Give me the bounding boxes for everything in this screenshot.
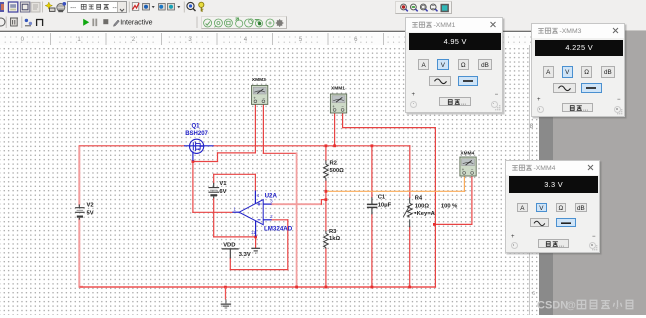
wire: V2 left rail vertical (light) (78, 147, 80, 205)
multimeter panel XMM4 (505, 160, 600, 253)
transistor Q1 BSH207 (184, 139, 214, 161)
wire: op-amp pin2 loop to VDD bar (272, 219, 288, 221)
multimeter panel XMM3 (531, 23, 625, 117)
pen icon (114, 20, 120, 26)
svg-text:100Ω: 100Ω (415, 203, 430, 209)
node: Q1 gate junction (192, 160, 195, 163)
svg-text:Key=A: Key=A (417, 211, 436, 217)
svg-text:-XMM1: -XMM1 (434, 22, 456, 29)
dark band right of sheet (539, 31, 553, 316)
wire: C1 top lead (371, 146, 373, 198)
svg-text:10μF: 10μF (378, 203, 392, 209)
svg-text:CSDN: CSDN (537, 299, 568, 311)
wire: gate node down to op-amp output (192, 162, 194, 213)
icon: component b with arrow (143, 4, 150, 11)
potentiometer R4 100ohm Key=A (403, 198, 412, 228)
pause (93, 18, 96, 26)
svg-text:3.3V: 3.3V (239, 252, 251, 258)
VDD power symbol (222, 249, 239, 259)
node: rail ground (224, 286, 227, 289)
multimeter icon XMM4 (460, 151, 476, 176)
wire: XMM3 + probe down to gate step (254, 105, 256, 153)
ruler strip (0, 31, 539, 33)
svg-text:6V: 6V (219, 189, 226, 195)
toolbar row 1 (0, 0, 646, 15)
instrument panels go here (0, 0, 1, 1)
wire: mid vertical to ground rail (light) (296, 153, 298, 287)
svg-text:4: 4 (257, 193, 260, 198)
svg-text:500Ω: 500Ω (330, 168, 345, 174)
probe icon group (201, 15, 287, 28)
icon: step waveform (37, 19, 43, 26)
svg-text:XMM3: XMM3 (252, 77, 266, 83)
in-use list dropdown (67, 1, 127, 13)
svg-text:U2A: U2A (265, 193, 278, 200)
zoom toolbar floating section (395, 1, 452, 13)
partial icon left edge (0, 18, 5, 26)
right of ruler light area (553, 31, 646, 44)
wire: R4 bottom to rail (409, 227, 411, 287)
wire: top net V2+ to R4 (79, 145, 184, 147)
multimeter icon XMM1 (330, 86, 346, 113)
CSDN watermark (537, 297, 645, 318)
node: C1 top on top net (371, 144, 374, 147)
svg-text:...: ... (461, 100, 466, 106)
wire: C1 bottom lead to rail (371, 214, 373, 287)
node: rail R4 (408, 286, 411, 289)
canvas with dot grid (0, 45, 539, 315)
icon: delete/trash (11, 18, 18, 26)
capacitor C1 10uF (367, 197, 378, 214)
svg-text:Q1: Q1 (192, 124, 201, 130)
node: pin3 tap on divider (325, 198, 328, 201)
svg-text:VDD: VDD (223, 242, 235, 248)
svg-text:BSH207: BSH207 (185, 131, 208, 137)
svg-text:V1: V1 (219, 181, 227, 187)
icon: grayed (31, 2, 40, 12)
svg-text:...: ... (559, 242, 564, 248)
icon: virtual component (57, 4, 65, 12)
wire: XMM3 - probe down and over (262, 105, 264, 154)
icon: blue dot tool (159, 4, 166, 11)
svg-text:LM324AD: LM324AD (264, 226, 293, 233)
icon: new schematic (8, 2, 17, 12)
battery V2 5V (75, 204, 85, 219)
play (83, 18, 89, 25)
node: XMM4- junction (433, 223, 436, 226)
svg-text:R2: R2 (330, 161, 337, 167)
node: V1- / pin11 / 3.3V rail (254, 236, 257, 239)
svg-text:@: @ (566, 300, 576, 311)
wire: XMM1 - down over and down to rail (342, 111, 344, 127)
separator (42, 2, 44, 13)
icon: open (20, 2, 29, 12)
svg-text:XMM4: XMM4 (460, 151, 474, 157)
wire: XMM4 + orange probe (326, 190, 465, 192)
icon: component with arrow 2 (168, 4, 175, 11)
separator (128, 2, 130, 13)
svg-text:5V: 5V (87, 211, 94, 217)
multimeter icon XMM3 (252, 77, 268, 104)
node: XMM1+ on top net (333, 144, 336, 147)
resistor R3 1kohm (324, 231, 329, 249)
ground symbol (221, 287, 231, 308)
svg-text:...: ... (583, 106, 588, 112)
icon: magnifier report (187, 2, 194, 9)
wire: bottom ground rail (light) (80, 286, 435, 288)
svg-text:11: 11 (251, 230, 256, 235)
gray workspace right (553, 44, 646, 316)
wire: XMM4 - down and over (471, 175, 473, 224)
svg-text:R4: R4 (415, 195, 423, 201)
separator (183, 2, 185, 13)
svg-text:XMM1: XMM1 (331, 86, 345, 92)
svg-text:1: 1 (234, 206, 237, 211)
node: rail C1 (371, 286, 374, 289)
resistor R2 500ohm (324, 160, 329, 180)
icon: new component (star) (45, 2, 52, 9)
battery V1 6V (208, 183, 219, 199)
icon: dots tool (25, 18, 28, 21)
op-amp U2A LM324AD (mirrored, points left) (232, 191, 271, 237)
node: orange tap on divider (325, 190, 328, 193)
wire: R2/R3 divider vertical (325, 146, 327, 161)
svg-text:R3: R3 (329, 229, 337, 235)
node: rail mid vertical (295, 286, 298, 289)
icon: yellow key (199, 2, 204, 7)
svg-text:2: 2 (270, 214, 273, 219)
svg-text:1kΩ: 1kΩ (329, 236, 340, 242)
node: rail R3 (325, 286, 328, 289)
svg-text:100 %: 100 % (441, 203, 457, 209)
wire: R4 top lead drop (409, 146, 411, 198)
wire: V1 plus up and over to op-amp V+ (213, 174, 215, 183)
wire: XMM1 + probe down (334, 111, 336, 146)
3.3V rail symbol (251, 248, 260, 253)
svg-text:-XMM3: -XMM3 (560, 28, 582, 35)
svg-text:C1: C1 (378, 195, 386, 201)
sheet border line + grid ref (529, 45, 530, 315)
wire: op-amp pin3 to divider node (light horizontal) (272, 203, 322, 205)
toolbar row 2 (0, 15, 646, 31)
wire: V1 minus down and over to VDD junction (213, 198, 215, 237)
stop (103, 19, 108, 24)
svg-text:-XMM4: -XMM4 (534, 165, 556, 172)
multimeter panel XMM1 (405, 17, 503, 113)
icon: ERC check (132, 3, 139, 11)
svg-text:V2: V2 (87, 203, 94, 209)
node: R2 top (325, 144, 328, 147)
partial icon at left edge (0, 2, 4, 12)
